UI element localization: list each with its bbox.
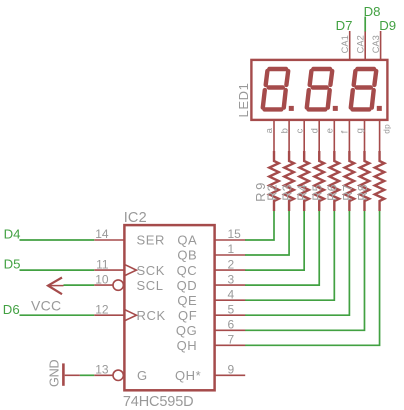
net label D6 [3,302,20,317]
display pin d [309,121,320,151]
display pin e [325,121,336,151]
svg-text:QH*: QH* [175,368,201,383]
display pin a [264,121,275,151]
svg-text:G: G [137,368,148,383]
wire d segment to QD [245,211,319,285]
svg-text:74HC595D: 74HC595D [123,394,194,410]
wire dp segment to QH [245,211,380,345]
pin QC 2 [177,257,246,278]
svg-text:SER: SER [137,233,166,248]
label IC2 [124,210,147,226]
display LED1 digit 1 [263,69,294,111]
svg-text:15: 15 [228,227,242,241]
net label D9 [379,18,396,33]
display LED1 digit 2 [307,69,338,111]
pin QE 4 [177,287,245,308]
svg-text:R8: R8 [356,184,370,201]
wire D5 to SCK [20,269,95,271]
svg-text:R4: R4 [296,184,310,201]
svg-text:3: 3 [228,272,235,286]
resistor R4 [311,151,325,211]
net label D4 [4,227,21,242]
svg-text:R3: R3 [281,184,295,201]
svg-text:GND: GND [47,360,61,387]
display pin b [279,121,290,151]
svg-text:7: 7 [228,333,235,347]
wire arrow to SCL [64,284,95,286]
wire D6 to RCK [20,314,95,316]
svg-text:QA: QA [177,233,197,248]
display LED1 digit 3 [351,69,382,111]
display pin c [294,121,305,151]
resistor R9 [253,151,279,211]
svg-text:d: d [309,128,320,134]
svg-text:QD: QD [177,278,198,293]
display pin CA1 [340,31,350,61]
svg-text:IC2: IC2 [124,210,147,226]
svg-text:CA3: CA3 [371,35,381,53]
pin SER 14 [94,227,165,248]
svg-text:e: e [325,128,336,134]
svg-text:R7: R7 [341,184,355,201]
wire a segment to QA [245,211,274,240]
pin SCK 11 [94,257,165,278]
svg-text:c: c [294,128,305,133]
svg-text:b: b [279,128,290,134]
wire e segment to QE [245,211,334,300]
display pin dp [380,121,392,151]
pin RCK 12 [94,302,166,323]
pin QH* 9 [175,363,245,384]
svg-text:13: 13 [95,363,109,377]
svg-text:10: 10 [95,272,109,286]
svg-text:QC: QC [177,263,198,278]
svg-text:g: g [355,128,366,134]
svg-text:5: 5 [228,302,235,316]
pin QD 3 [177,272,246,293]
pin G 13 [94,363,148,384]
wire c segment to QC [245,211,304,270]
ground GND [47,360,80,387]
pin QB 1 [177,242,245,263]
label LED1 [236,83,251,118]
svg-text:6: 6 [228,318,235,332]
svg-text:QG: QG [176,323,197,338]
svg-text:2: 2 [228,257,235,271]
svg-text:LED1: LED1 [236,83,251,118]
resistor R3 [296,151,310,211]
svg-text:D7: D7 [336,18,353,33]
display pin CA2 [356,31,366,61]
resistor R2 [281,151,295,211]
pin QF 5 [178,302,245,323]
svg-text:VCC: VCC [31,297,61,313]
svg-text:f: f [340,130,351,133]
resistor R8 [375,151,385,211]
display pin f [340,121,351,151]
label 74HC595D [123,394,194,410]
svg-text:D9: D9 [379,18,396,33]
net label D5 [4,257,21,272]
svg-text:QH: QH [177,338,198,353]
svg-text:D5: D5 [4,257,21,272]
7-segment display LED1 body [251,60,387,120]
wire f segment to QF [245,211,349,315]
svg-text:QF: QF [178,308,197,323]
svg-text:11: 11 [96,257,109,271]
svg-text:D4: D4 [4,227,21,242]
display pin CA3 [371,31,381,61]
svg-text:D6: D6 [3,302,20,317]
wire GND to G [80,374,94,376]
svg-text:SCK: SCK [137,263,166,278]
pin QH 7 [177,333,246,354]
wire D4 to SER [20,239,95,241]
svg-text:QB: QB [177,248,197,263]
svg-text:a: a [264,127,275,133]
svg-text:R6: R6 [326,184,340,201]
svg-text:R2: R2 [265,184,279,201]
resistor R6 [341,151,355,211]
wire D8 to CA2 [364,17,366,32]
net label D7 [336,18,353,33]
label VCC [31,297,61,313]
pin QG 6 [176,318,245,339]
IC IC2 74HC595 body [124,225,214,390]
svg-text:4: 4 [228,287,235,301]
wire b segment to QB [245,211,289,255]
svg-text:QE: QE [177,293,197,308]
net label D8 [364,4,381,19]
svg-text:CA2: CA2 [356,35,366,53]
arrow to SCL [48,278,64,295]
svg-text:dp: dp [382,124,391,134]
pin QA 15 [177,227,245,248]
svg-text:1: 1 [228,242,235,256]
svg-text:CA1: CA1 [340,35,350,53]
svg-text:RCK: RCK [137,308,166,323]
svg-text:12: 12 [95,302,109,316]
svg-text:9: 9 [228,363,235,377]
display pin g [355,121,366,151]
svg-text:14: 14 [95,227,109,241]
resistor R7 [356,151,370,211]
wire g segment to QG [245,211,364,330]
svg-text:SCL: SCL [137,278,164,293]
resistor R5 [326,151,340,211]
svg-text:R5: R5 [311,184,325,201]
svg-text:D8: D8 [364,4,381,19]
pin SCL 10 [94,272,163,293]
